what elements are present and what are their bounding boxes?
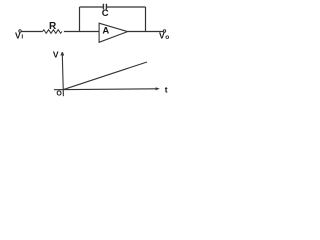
op-amp U1 [99,23,127,42]
wire resistor to op-amp [64,31,99,33]
svg-text:i: i [21,33,23,40]
svg-text:O: O [56,91,62,98]
wire feedback left leg [79,7,81,32]
graph x-axis [54,88,156,91]
wire output [128,31,164,33]
svg-text:V: V [53,50,59,60]
svg-text:R: R [49,21,57,32]
wire feedback right leg [145,7,147,32]
wire input [21,31,42,33]
terminal Vo [163,30,165,32]
graph y-axis [62,52,63,96]
svg-text:C: C [102,8,109,19]
resistor R [43,30,62,34]
capacitor C [103,4,106,10]
svg-text:t: t [165,85,168,95]
graph y-axis arrowhead [61,52,64,55]
graph x-axis arrowhead [156,87,160,90]
wire feedback top right [106,6,145,8]
svg-text:A: A [102,26,109,37]
svg-text:V: V [15,30,21,40]
svg-text:o: o [165,34,169,41]
svg-text:V: V [159,31,165,41]
graph ramp line [63,62,147,90]
wire feedback top left [80,6,104,8]
terminal Vi [19,30,21,32]
